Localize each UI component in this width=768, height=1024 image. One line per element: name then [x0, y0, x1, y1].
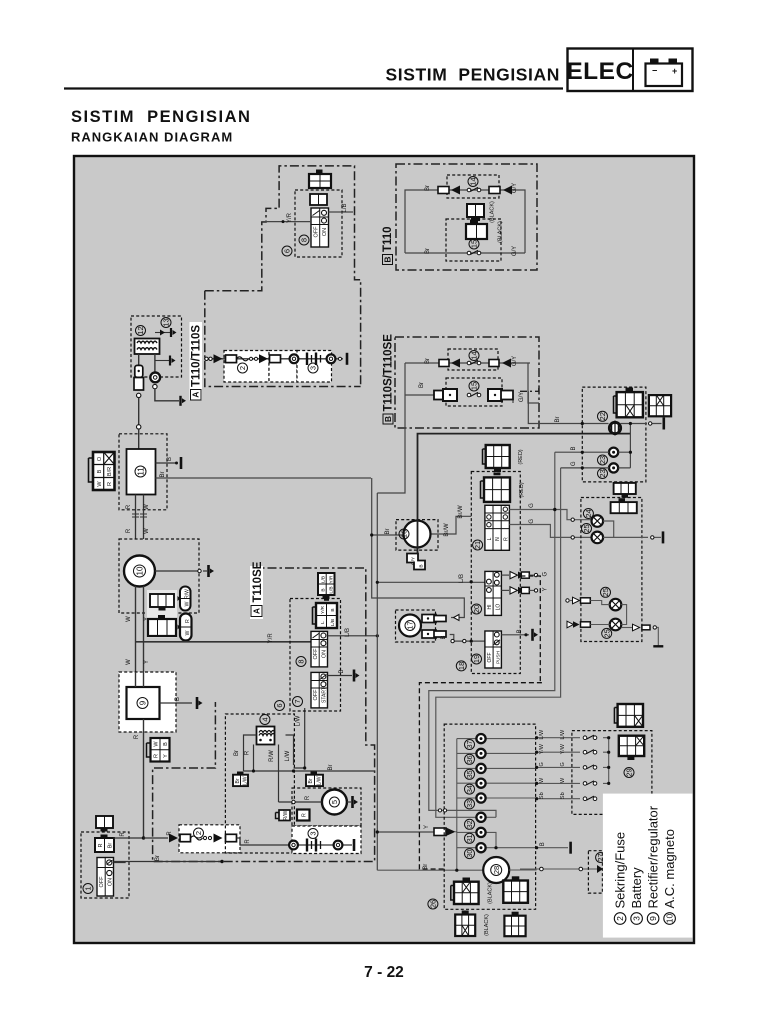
label A T110/T110S [190, 322, 203, 400]
svg-text:A: A [191, 392, 201, 398]
battery 3 white dashed box bottom [292, 826, 361, 854]
svg-text:Sb: Sb [539, 792, 545, 799]
svg-text:Y/W: Y/W [539, 743, 545, 754]
svg-text:L/W: L/W [243, 776, 249, 785]
svg-text:26: 26 [428, 900, 437, 908]
dashed box CDI 11 [119, 434, 167, 510]
svg-text:12: 12 [136, 326, 145, 334]
second row wire [405, 395, 513, 403]
connector grid small right [306, 772, 323, 787]
svg-text:G: G [560, 762, 566, 766]
starter motor 5 [322, 790, 347, 815]
svg-text:L/B: L/B [345, 628, 351, 637]
svg-text:N: N [495, 537, 501, 541]
svg-text:28: 28 [492, 866, 501, 874]
svg-text:L/B: L/B [342, 203, 348, 212]
svg-text:T110S/T110SE: T110S/T110SE [383, 334, 395, 412]
svg-text:32: 32 [467, 820, 474, 828]
svg-text:ON: ON [322, 228, 328, 236]
horn bullet connector [454, 615, 460, 621]
svg-text:18: 18 [457, 662, 466, 670]
circled 2 bottom [194, 828, 204, 838]
small connector below meter box [614, 483, 636, 498]
svg-text:Br: Br [108, 843, 114, 849]
svg-text:R: R [503, 537, 509, 541]
svg-text:B: B [517, 629, 523, 633]
connector (RED) lower [481, 474, 511, 502]
dashed white box regulator 9 [119, 672, 176, 732]
dotted box starter 5 [292, 788, 361, 826]
label A T110SE [250, 561, 264, 619]
circled 13 [161, 318, 171, 328]
magneto down wires [136, 586, 144, 672]
wire bottom row [405, 252, 525, 254]
svg-text:R: R [134, 734, 140, 739]
circled 8 SE [296, 657, 306, 667]
circled 14b [469, 351, 479, 361]
svg-text:Br: Br [234, 750, 240, 756]
svg-text:W: W [126, 616, 132, 622]
svg-text:R/W: R/W [269, 750, 275, 762]
circled 37 [465, 740, 475, 750]
svg-text:L/W: L/W [317, 776, 323, 785]
svg-text:11: 11 [136, 467, 145, 476]
svg-text:Br: Br [425, 248, 431, 254]
svg-text:+: + [672, 66, 677, 76]
svg-text:W: W [144, 528, 150, 534]
connector rect pair row1 [438, 187, 449, 194]
indicator bulb 23b [609, 463, 618, 472]
svg-text:21: 21 [473, 541, 482, 549]
fuse 2 white dashed box bottom [179, 825, 240, 853]
svg-text:G: G [539, 762, 545, 766]
wire to big tail bulb [377, 869, 483, 871]
svg-text:7: 7 [293, 699, 302, 703]
circled 35 [465, 769, 475, 779]
svg-text:ON: ON [322, 650, 328, 658]
svg-text:2: 2 [615, 916, 625, 921]
dashed box lamp checker 14 [447, 175, 499, 198]
svg-text:B: B [571, 446, 577, 450]
connector in switch 1 [95, 835, 114, 853]
circled 15b [469, 381, 479, 391]
region boundary B T110 [396, 164, 537, 270]
bulb 35 [476, 764, 485, 773]
flasher input row 2 [567, 621, 610, 628]
circled 33 [465, 799, 475, 809]
svg-text:W: W [185, 630, 191, 635]
small connector above main switch [96, 816, 113, 832]
meter illumination bulb [609, 421, 620, 436]
svg-text:B: B [540, 842, 546, 846]
B T110S/T110SE box internals [377, 363, 539, 493]
contact row1 [467, 187, 481, 191]
svg-text:Y/R: Y/R [287, 212, 293, 223]
contact row2b [467, 392, 481, 396]
connector (BLACK) lower [466, 220, 487, 240]
circled 29 [624, 768, 634, 778]
svg-text:Br/W: Br/W [458, 505, 464, 519]
circled 24 [583, 509, 593, 519]
diagram gray panel [74, 156, 694, 943]
circled 25d [602, 628, 612, 638]
headlight bulb 16 [404, 521, 431, 548]
circled 3 strip [308, 363, 318, 373]
svg-text:10: 10 [135, 566, 144, 575]
svg-text:8: 8 [297, 659, 306, 663]
svg-text:ELEC: ELEC [566, 58, 633, 85]
thick B wire top [418, 434, 631, 554]
mag connector block B [148, 615, 176, 636]
svg-text:L/B: L/B [329, 586, 335, 593]
svg-text:23: 23 [598, 469, 607, 477]
svg-text:G: G [529, 503, 535, 508]
ground from switch7 SE [328, 669, 360, 681]
connector grid W B / R Y [147, 738, 170, 762]
starter ground [347, 796, 358, 808]
tail connector grid 1 (BLACK) [451, 878, 479, 905]
circled 18 [456, 661, 466, 671]
arrow connector into lamp box [424, 825, 457, 836]
bulb 36 [476, 749, 485, 758]
svg-text:T110SE: T110SE [252, 561, 264, 602]
main switch block 1 OFF/ON [97, 858, 114, 897]
svg-text:13: 13 [162, 318, 171, 326]
svg-text:R: R [126, 504, 132, 509]
svg-text:Battery: Battery [629, 867, 644, 909]
svg-text:R: R [107, 482, 113, 486]
svg-text:9: 9 [138, 700, 147, 705]
dimmer switch grid 21 [485, 505, 510, 550]
svg-text:B: B [97, 469, 103, 473]
svg-text:A.C. magneto: A.C. magneto [662, 829, 677, 909]
svg-text:R: R [245, 750, 251, 755]
Br bus horizontal center [244, 770, 376, 772]
circled 21 [473, 540, 483, 550]
svg-text:R/W: R/W [283, 810, 289, 820]
svg-text:Sb: Sb [560, 792, 566, 799]
svg-text:OFF: OFF [314, 226, 320, 238]
svg-text:25: 25 [602, 629, 611, 637]
turn indicator bulb 25b [592, 532, 604, 544]
circled 36 [465, 754, 475, 764]
wire L/B out of switch8 [329, 211, 354, 213]
legend white box [603, 794, 693, 938]
headlight 16 dotted box [396, 520, 438, 551]
svg-text:14: 14 [470, 351, 479, 359]
mag connector block A [150, 594, 174, 611]
svg-text:L: L [487, 537, 493, 540]
svg-text:7 - 22: 7 - 22 [364, 964, 404, 981]
circled 4 [260, 715, 270, 725]
dashed box main switch 1 [81, 832, 129, 898]
battery icon [646, 59, 683, 87]
svg-text:O: O [97, 456, 103, 461]
G_REGIONS [153, 164, 539, 862]
svg-text:(RED): (RED) [519, 482, 525, 497]
svg-text:15: 15 [470, 382, 479, 390]
svg-text:Y: Y [543, 587, 549, 591]
bulb 32 [476, 813, 485, 822]
CDI down wires R W [132, 495, 147, 540]
svg-text:Br: Br [425, 185, 431, 191]
svg-text:Sekring/Fuse: Sekring/Fuse [613, 832, 628, 909]
legend line 3 Battery [629, 867, 644, 924]
circled 30 [465, 849, 475, 859]
svg-text:24: 24 [584, 509, 593, 517]
svg-text:B: B [175, 697, 181, 701]
svg-text:Y/W: Y/W [560, 743, 566, 754]
wire rows bulbbox to switch [537, 738, 609, 799]
svg-text:G: G [529, 519, 535, 524]
svg-text:RANGKAIAN DIAGRAM: RANGKAIAN DIAGRAM [71, 130, 233, 145]
A.C. magneto 10 [124, 556, 155, 587]
regulator B ground [160, 697, 203, 709]
B T110 box internals [405, 190, 525, 253]
headlamp switch 20 HI/LO [485, 571, 502, 615]
svg-text:A: A [252, 608, 262, 614]
svg-text:34: 34 [467, 785, 474, 793]
dashed box 15 [446, 219, 501, 261]
svg-text:R/W: R/W [185, 589, 191, 599]
label B T110S/T110SE [383, 334, 395, 424]
meter cluster wires [528, 391, 661, 468]
dashed box magneto 10 [119, 539, 199, 613]
svg-text:1: 1 [84, 886, 93, 890]
CDI right wires: B ground stub [156, 457, 182, 469]
flasher input row 1 [566, 597, 610, 604]
chain stub near meter box [520, 385, 539, 391]
ELEC tab box [568, 49, 693, 92]
small connector in 6/8 [310, 194, 327, 205]
circled 32 [465, 819, 475, 829]
svg-text:R: R [245, 839, 251, 844]
contact row2 [467, 250, 481, 254]
rectifier/regulator 9 [127, 687, 160, 719]
flasher bulb 25d [610, 619, 622, 631]
horn bottom wire to horn button [441, 635, 485, 643]
stepped connector left [434, 389, 457, 401]
svg-text:8: 8 [300, 238, 309, 242]
svg-text:SISTIM PENGISIAN: SISTIM PENGISIAN [71, 108, 251, 126]
flasher bulb 25c [610, 599, 622, 611]
svg-text:(RED): (RED) [518, 449, 524, 464]
svg-text:R: R [154, 754, 160, 758]
svg-text:3: 3 [309, 831, 318, 835]
right connector grid lower [619, 736, 644, 760]
flasher output to ground [621, 624, 663, 646]
svg-text:B/R: B/R [107, 467, 113, 476]
region boundary B T110S/T110SE [395, 337, 539, 428]
svg-text:Rectifier/regulator: Rectifier/regulator [646, 805, 661, 908]
svg-text:B: B [330, 608, 336, 611]
connector 24 [611, 498, 637, 513]
magneto ground wire [155, 565, 214, 577]
big dotted box relay area 4 [225, 714, 294, 853]
svg-text:20: 20 [472, 605, 481, 613]
svg-text:SISTIM PENGISIAN: SISTIM PENGISIAN [385, 65, 560, 85]
fuse/battery strip A: white dashed boxes [224, 351, 332, 383]
connector (RED) upper [483, 445, 510, 472]
svg-text:15: 15 [470, 240, 479, 248]
svg-text:T110/T110S: T110/T110S [191, 325, 203, 387]
svg-text:23: 23 [598, 456, 607, 464]
switch contacts right [583, 735, 597, 739]
svg-text:Br: Br [385, 528, 391, 534]
dashed box dimmer 21 [471, 472, 520, 674]
wire R/W to starter [279, 795, 322, 804]
svg-text:16: 16 [400, 530, 409, 538]
indicator link wires [603, 521, 661, 537]
tail connector grid 2 [503, 876, 528, 903]
svg-text:B: B [167, 457, 173, 461]
arrow pair to bar 13 [155, 328, 177, 337]
svg-text:4: 4 [260, 717, 269, 721]
white patch behind mag connectors [147, 590, 177, 638]
connector R small black [297, 810, 310, 821]
fuse row wire [144, 831, 290, 845]
circled 15 [469, 239, 479, 249]
long vertical wire x377 [377, 493, 485, 870]
svg-text:Y/R: Y/R [320, 605, 326, 614]
bulb 31 [476, 828, 485, 837]
svg-text:6: 6 [275, 703, 284, 707]
box18 right edge [520, 576, 540, 683]
handlebar switch dotted box right [572, 731, 652, 815]
svg-text:OFF: OFF [313, 689, 319, 701]
horn terminals [422, 615, 446, 639]
svg-text:(BLACK): (BLACK) [488, 882, 494, 904]
svg-text:29: 29 [625, 768, 634, 776]
svg-text:10: 10 [665, 914, 675, 924]
svg-text:B: B [339, 669, 345, 673]
svg-text:25: 25 [601, 588, 610, 596]
svg-text:36: 36 [467, 755, 474, 763]
svg-text:17: 17 [406, 621, 415, 629]
svg-text:2: 2 [238, 366, 247, 370]
svg-text:R: R [98, 843, 104, 847]
right meter connector grid [649, 395, 671, 416]
svg-text:22: 22 [598, 412, 607, 420]
svg-text:W: W [539, 777, 545, 783]
svg-text:19: 19 [472, 655, 481, 663]
svg-text:L: L [320, 621, 326, 624]
svg-text:R: R [120, 832, 126, 837]
meter connector grid [614, 388, 643, 418]
svg-text:37: 37 [467, 741, 474, 749]
oval connector B [178, 614, 192, 641]
svg-text:OFF: OFF [313, 648, 319, 660]
svg-text:(BLACK): (BLACK) [484, 914, 490, 936]
circled 26 [428, 899, 438, 909]
svg-text:B: B [383, 416, 393, 422]
dashed box ignition 12/13 [131, 316, 182, 377]
circled 1 [83, 884, 93, 894]
svg-text:G/Y: G/Y [411, 556, 417, 565]
svg-text:T110: T110 [382, 226, 394, 252]
dashed box 15b [446, 378, 502, 406]
dashed box switch 6/8 [295, 190, 342, 257]
svg-text:3: 3 [309, 366, 318, 370]
regulator R down wire [134, 719, 144, 838]
svg-text:Y/R: Y/R [329, 575, 335, 584]
svg-text:W: W [560, 777, 566, 783]
top connector above switch 6/8 [309, 170, 331, 189]
ground T inside box [155, 356, 176, 366]
horn 17 dotted box [396, 610, 436, 642]
bulb 34 [476, 779, 485, 788]
svg-text:B: B [163, 742, 169, 746]
svg-text:6: 6 [283, 249, 292, 253]
bulb 37 [476, 734, 485, 743]
T110SE connector stack lower [313, 600, 338, 629]
svg-text:OFF: OFF [487, 653, 493, 663]
svg-text:Br: Br [155, 855, 161, 861]
svg-text:3: 3 [632, 916, 642, 921]
CDI Br wire to right bus [156, 471, 372, 478]
svg-text:G: G [543, 571, 549, 576]
dotted box 27 [588, 851, 602, 893]
svg-text:Y: Y [163, 754, 169, 758]
wire L/B from switch8 SE to bus [328, 628, 379, 637]
svg-text:R: R [126, 528, 132, 533]
T110SE connector stack top [318, 573, 335, 599]
big bulb 28 [483, 857, 509, 883]
svg-text:R: R [302, 813, 308, 817]
main switch block 8 (OFF/ON) [311, 208, 329, 247]
relay wires [244, 735, 294, 802]
svg-text:Br: Br [555, 416, 561, 422]
main bus wire Y/R east from mag area to engine stop switch [136, 641, 312, 643]
flasher bulb bracket [621, 605, 626, 625]
svg-text:14: 14 [469, 177, 478, 185]
circled 6 SE [275, 701, 285, 711]
svg-text:30: 30 [467, 850, 474, 858]
circled 31 [465, 833, 475, 843]
svg-text:PUSH: PUSH [495, 651, 500, 664]
svg-text:L/B: L/B [459, 574, 465, 583]
svg-text:L/B: L/B [321, 576, 327, 583]
header rule [64, 87, 563, 89]
circled 22 [598, 411, 608, 421]
svg-text:Y: Y [144, 660, 150, 664]
switch20 out stubs [501, 571, 548, 594]
stepped connector G/Y B below headlight [407, 554, 425, 570]
svg-text:Y: Y [424, 825, 430, 829]
circled 20 [472, 604, 482, 614]
svg-text:2: 2 [194, 831, 203, 835]
indicator bulb 23a [609, 448, 618, 457]
svg-text:Br: Br [425, 358, 431, 364]
bulb 30 [476, 843, 485, 852]
outer dashed box 18 assembly [419, 683, 542, 869]
svg-text:35: 35 [467, 770, 474, 778]
bulb rows [457, 739, 537, 871]
legend line 2 Sekring/Fuse [613, 832, 628, 924]
turn indicator bulb 25a [592, 515, 604, 527]
svg-text:9: 9 [648, 916, 658, 921]
svg-text:25: 25 [582, 524, 591, 532]
ignition coil 12 [135, 339, 160, 355]
svg-text:Br/W: Br/W [444, 523, 450, 537]
wire top row 2 [405, 362, 530, 364]
svg-text:W: W [185, 601, 191, 606]
dashed box 14b [448, 349, 498, 370]
legend line 10 A.C. magneto [662, 829, 677, 924]
meter lamp cluster dotted box 22/23 [582, 387, 646, 482]
connector grid left of CDI [89, 452, 115, 490]
circled 3 bottom [308, 829, 318, 839]
